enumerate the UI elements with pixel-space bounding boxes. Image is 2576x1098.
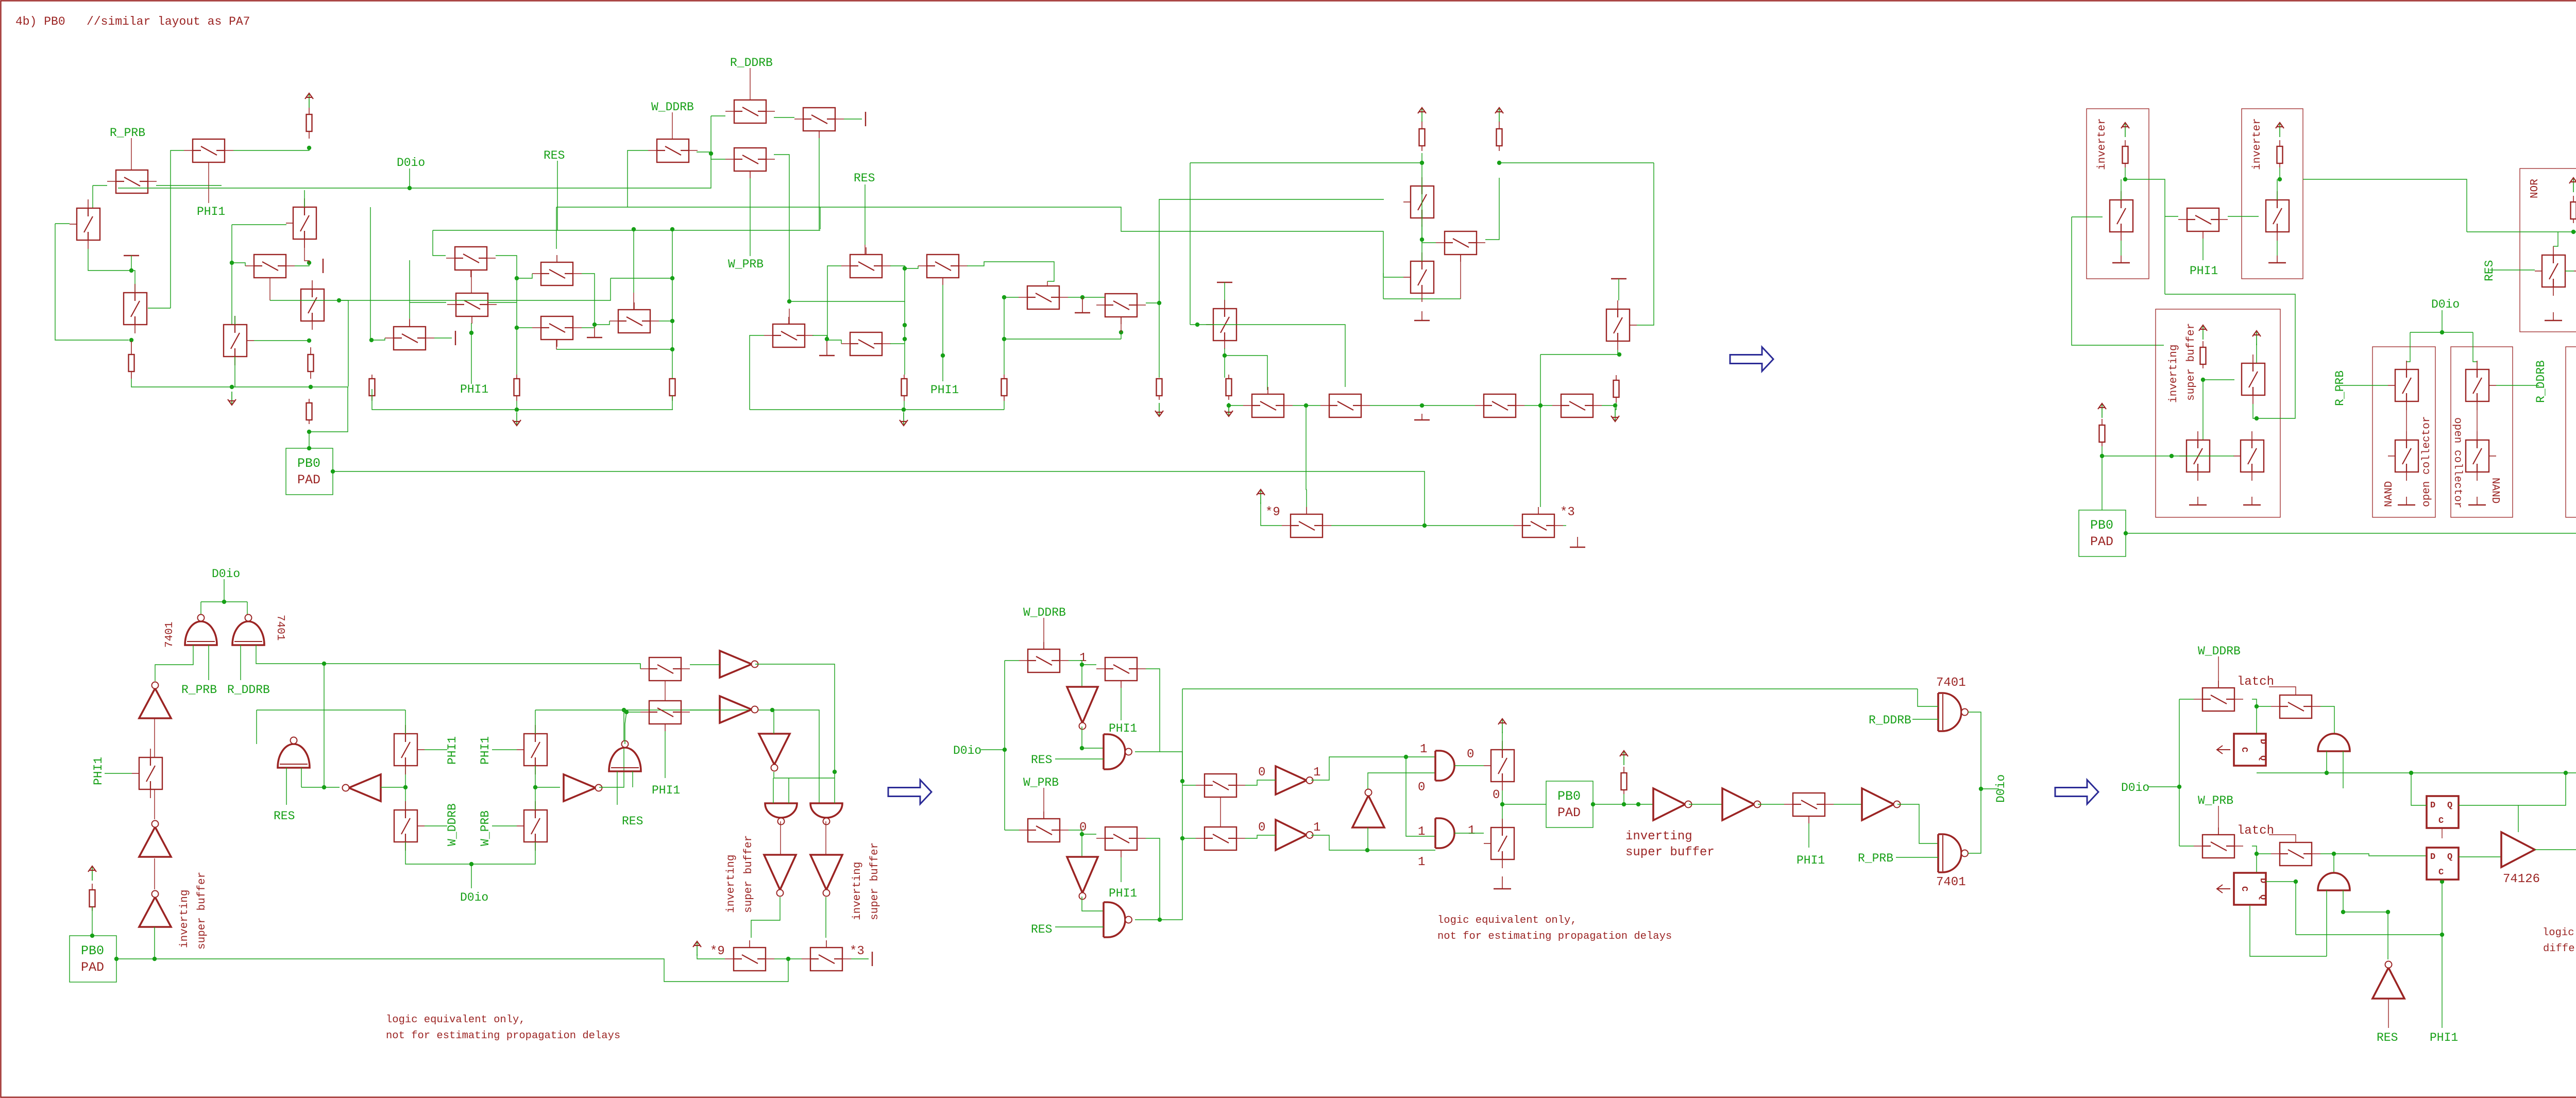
svg-text:74126: 74126 (2503, 872, 2540, 886)
node res2 top (129, 338, 133, 342)
svg-text:R_DDRB: R_DDRB (227, 683, 270, 697)
isbA transistor botR (2233, 431, 2264, 481)
net label PHI1 s4b (1109, 887, 1137, 900)
s4 node n7 (1404, 755, 1408, 759)
wire Q8 gate (254, 340, 309, 341)
s4 text 1f (1418, 825, 1425, 839)
net label D0io s5 (2121, 781, 2149, 795)
power VCC arrow 2 (1418, 108, 1426, 122)
svg-text:different from original circui: different from original circuitry (2543, 943, 2576, 955)
svg-text:latch: latch (2237, 824, 2274, 838)
svg-text:PAD: PAD (1557, 805, 1581, 820)
wire Q25-Q27 (1421, 225, 1422, 261)
transistor Q15 (725, 148, 775, 178)
transistor Q18 (609, 302, 659, 333)
node a2 (307, 261, 311, 265)
wire s3 D0io stub (471, 864, 472, 888)
net label PHI1 s5 (2430, 1031, 2458, 1044)
node c1 (709, 151, 713, 156)
transistor Q5 (286, 198, 316, 248)
wire w1 right (789, 301, 905, 302)
node h3 (1420, 403, 1424, 408)
wire NOR1 ab (2565, 271, 2574, 272)
wire Q7 gate (270, 300, 339, 301)
oc R ground (2468, 497, 2486, 505)
svg-text:1: 1 (1468, 824, 1475, 838)
s4 text 1b (1313, 766, 1320, 780)
inverter tri D2s3 (764, 855, 796, 897)
svg-text:PHI1: PHI1 (2430, 1031, 2458, 1044)
ground bar (124, 255, 139, 256)
wire Q27 gate (1384, 277, 1403, 278)
s4 NAND1 out (1135, 669, 1160, 752)
net label RES s4b (1031, 923, 1052, 936)
isbA resistor (2200, 341, 2206, 368)
s3 note 2 (386, 1030, 620, 1042)
wire e1-e3 vert (1421, 153, 1422, 243)
s4 note 2 (1437, 931, 1672, 942)
s4 gate 7401B (1938, 834, 1968, 872)
isb s3 label 2 (196, 872, 208, 950)
s4 Q7 top (1502, 732, 1503, 750)
s5 A1 legL (2326, 751, 2327, 773)
s5 L2 arrow (2217, 885, 2230, 893)
net label R_DDRB s3 (227, 683, 270, 697)
node h2 (1304, 403, 1308, 408)
s3 fet *3 (802, 940, 851, 971)
s4 transistor Q3 (1019, 812, 1069, 842)
gate NAND E (765, 803, 797, 825)
svg-text:D: D (2430, 852, 2435, 862)
svg-text:latch: latch (2237, 675, 2274, 689)
wire c7 down (516, 328, 517, 375)
isbA ground L (2189, 497, 2207, 505)
svg-text:open collector: open collector (2421, 416, 2433, 507)
wire run B link (820, 207, 821, 229)
s4 inverter D1 (1067, 687, 1098, 730)
inverter tri D3s3 (810, 855, 842, 897)
svg-text:PHI1: PHI1 (1109, 722, 1137, 735)
svg-text:PHI1: PHI1 (479, 736, 492, 765)
transistor Q30 (1320, 394, 1370, 417)
node f1 (1617, 352, 1621, 357)
transistor Q14 (648, 139, 698, 162)
NOR block 1 outline (2520, 168, 2576, 332)
link U3 (154, 858, 155, 889)
wire d2 run (1190, 325, 1345, 387)
svg-text:0: 0 (1467, 748, 1474, 762)
s5 text 74126 (2503, 872, 2540, 886)
wire s3 run1378L drop (256, 710, 257, 744)
wire gE legR (788, 778, 789, 803)
svg-text:7401: 7401 (1936, 875, 1966, 889)
s4 node n1 (1080, 663, 1084, 667)
NOR1 drop L (2553, 232, 2558, 246)
wire Q28 bot (1618, 350, 1619, 354)
node d2 (1195, 323, 1199, 327)
svg-text:D: D (2430, 801, 2435, 810)
node g3 (307, 430, 311, 434)
transistor Q4 (124, 284, 147, 333)
s3 res wire (92, 907, 93, 936)
wire Q2 source left (171, 150, 184, 308)
wire s3 run1378L (257, 710, 405, 711)
open collector R label (2451, 417, 2463, 508)
node c3 (592, 323, 597, 327)
oc R transistor A (2466, 361, 2496, 410)
wire R1s3 out (599, 710, 624, 787)
transistor Q6 (245, 255, 295, 278)
svg-text:RES: RES (1031, 923, 1052, 936)
s4 res wire (1623, 794, 1624, 804)
net label W_PRB s5 (2198, 794, 2233, 807)
s4 NAND3 out (1454, 765, 1484, 766)
svg-text:PHI1: PHI1 (1797, 854, 1825, 867)
open collector L label (2421, 416, 2433, 507)
wire Q23 gate net (1121, 332, 1122, 339)
resistor R2 (129, 341, 134, 379)
wire Q23 right (1146, 302, 1159, 303)
svg-text:PHI1: PHI1 (92, 757, 105, 785)
s4 U1 link (1367, 827, 1368, 850)
node i1 (1422, 523, 1427, 528)
net label R_PRB s4 (1858, 852, 1893, 865)
s4 Q1 left (1005, 660, 1019, 661)
wire c45 (672, 229, 673, 379)
resistor Rf (1002, 375, 1007, 401)
wire c6 down (517, 278, 532, 328)
node e3 (1420, 238, 1424, 242)
s5 L3 C lead (2442, 828, 2443, 838)
isbA node 1 (2201, 378, 2205, 382)
transistor Q2 (184, 139, 233, 162)
inverter block 1 label (2096, 118, 2108, 170)
s4 text 0b (1258, 766, 1265, 780)
inverter tri U2 (139, 821, 171, 857)
svg-text:W_DDRB: W_DDRB (1023, 606, 1066, 619)
wire D3 out (825, 897, 826, 938)
s4 Q9 out (1834, 804, 1862, 805)
isbA label 2 (2185, 323, 2197, 401)
gate NAND D (609, 741, 641, 772)
wire Q13 gate down (819, 138, 820, 230)
wire Q5 gate (232, 224, 286, 225)
wire g3 down (309, 432, 310, 448)
text *9 S1 (1265, 505, 1280, 519)
wire D2 out (751, 897, 780, 938)
svg-text:7401: 7401 (164, 622, 176, 648)
net label D0io s2 (2431, 298, 2460, 311)
NOR1 transistor B (2574, 246, 2576, 296)
net label D0io s4out (1994, 774, 2008, 803)
wire R_DDRB gate (2496, 385, 2539, 386)
isbA VCC arrow 2 (2252, 331, 2261, 345)
wire Q8 top (234, 316, 235, 325)
inverter block 2 label (2251, 118, 2263, 170)
wire e1 rail (1190, 162, 1422, 163)
s5 A2 legL (2326, 890, 2327, 956)
node s3 d0 (222, 600, 226, 604)
s4 note 1 (1437, 915, 1577, 926)
wire s3 Q1 gate (105, 773, 132, 774)
net label PHI1 (197, 205, 225, 218)
node e5 (941, 353, 945, 358)
isbA arrow2 wire (2256, 344, 2257, 363)
wire gC legR (301, 768, 302, 787)
wire gB legR (256, 645, 640, 669)
s4 text 1c (1420, 742, 1427, 756)
s4 node n9 (1500, 802, 1504, 806)
transistor Q34 *3 (1514, 507, 1563, 537)
wire Q1 source (93, 185, 107, 186)
wire s3 Q2 top (405, 710, 406, 734)
wire Q17 right (582, 327, 595, 328)
s5 A2 legR (2343, 890, 2344, 912)
svg-text:RES: RES (854, 172, 875, 185)
wire Q19 gatelead (865, 245, 866, 255)
wire Q14 left (628, 150, 648, 207)
wire L1 in (381, 787, 405, 788)
s4 D0io wire (981, 749, 1005, 750)
node c2b (670, 227, 674, 231)
node e7 (903, 337, 907, 341)
s5 latch1 ptr (2269, 687, 2296, 695)
transistor Q31 (1475, 394, 1524, 417)
svg-text:W_PRB: W_PRB (2198, 794, 2233, 807)
transistor Q8 (224, 316, 254, 365)
svg-text:PHI1: PHI1 (446, 736, 459, 765)
svg-text:D0io: D0io (1994, 774, 2008, 803)
net label R_PRB s2 (2333, 370, 2347, 406)
transistor s3 Q7 (640, 701, 690, 731)
wire QW1 right (812, 335, 827, 339)
title text (15, 15, 250, 28)
node d0 (1119, 330, 1123, 334)
s4 out wire (1981, 788, 1999, 789)
gate 7401 B (232, 615, 264, 646)
s4 Q5-R1 (1245, 780, 1276, 785)
wire Q26 gate run (1383, 298, 1461, 299)
wire g2 (750, 409, 1004, 410)
wire Q28 top (1618, 279, 1619, 300)
wire a3 down (339, 300, 348, 386)
s5 Q4 out b (2334, 854, 2334, 873)
pad PB0 S4 (1546, 781, 1593, 827)
wire *9 vcc (1261, 502, 1282, 526)
wire Q21 gatelead (1047, 281, 1048, 286)
node e2 (1497, 161, 1501, 165)
s4 Q6-R2 (1245, 835, 1276, 838)
oc L ground (2398, 497, 2415, 505)
resistor R6b (1157, 379, 1162, 400)
inverter 2 output node (2278, 177, 2282, 181)
s4 Q1 right (1069, 661, 1082, 665)
wire Q20 right (967, 262, 1054, 281)
ground bar d (1217, 282, 1232, 283)
svg-text:4b) PB0 //similar layout as: 4b) PB0 //similar layout as PA7 (15, 15, 250, 28)
isb s3r label 2 (743, 835, 755, 913)
s5 Q3-Q4 (2252, 846, 2271, 854)
node s3 m4 (533, 785, 537, 789)
terminator t3 (865, 112, 866, 126)
s4 n3 down (1081, 834, 1082, 857)
wire h2 drop (1306, 406, 1307, 489)
svg-text:PB0: PB0 (2090, 518, 2113, 533)
svg-text:super buffer: super buffer (2185, 323, 2197, 401)
s3 resistor (90, 884, 95, 911)
svg-text:PHI1: PHI1 (930, 383, 959, 397)
wire s3 bus drop (324, 664, 325, 787)
transistor Q17 (532, 316, 582, 347)
svg-text:logic equivalent only,: logic equivalent only, (386, 1014, 526, 1026)
wire Q14 right (697, 152, 711, 154)
wire inv1 gate vert (2072, 217, 2164, 345)
wire Q10 gate net (471, 323, 472, 384)
svg-text:PHI1: PHI1 (1109, 887, 1137, 900)
wire Q18 gatefeed (633, 229, 634, 293)
s5 n5 drop (2387, 912, 2388, 959)
inverter block 6 outline (2566, 347, 2576, 517)
net label R_DDRB s4 (1869, 714, 1911, 727)
inverter 1 output node (2123, 177, 2127, 181)
node c7 (515, 326, 519, 330)
text *3 s3 (850, 944, 865, 958)
svg-text:W_PRB: W_PRB (728, 258, 764, 271)
svg-text:D0io: D0io (2431, 298, 2460, 311)
s5 text latch2 (2237, 824, 2274, 838)
wire Q6-R2 (690, 664, 720, 665)
node bus2 (309, 385, 313, 389)
inverter 2 res-out wire (2279, 167, 2280, 179)
net label PHI1 s3c (479, 736, 492, 765)
net label PHI1 b (460, 383, 488, 396)
s4 out node (1979, 787, 1983, 791)
NOR block 1 label (2529, 179, 2541, 198)
net label RES s3b (622, 815, 643, 828)
transistor s3 Q2 (394, 725, 425, 774)
svg-text:logic equivalent only,: logic equivalent only, (1437, 915, 1577, 926)
s2 pad VCC arrow (2098, 403, 2106, 418)
inverter tri R1s3 (564, 774, 602, 801)
s5 Q3 gate lead (2218, 806, 2219, 835)
s4 NAND4 out (1454, 833, 1484, 834)
svg-text:inverting: inverting (2168, 345, 2180, 403)
wire QW2 right (890, 343, 905, 344)
s3 fet *9 (725, 940, 774, 971)
wire s3 drop L (200, 602, 201, 614)
node c6 (515, 276, 519, 280)
node s3 m2 (403, 785, 408, 789)
s4 Q2 gate wire (1121, 688, 1122, 720)
s4 Q6 left (1182, 838, 1196, 839)
s4 D1 out (1081, 727, 1082, 748)
inverter block 2 outline (2242, 109, 2303, 279)
s4 VCC arrow (1498, 719, 1506, 733)
transistor s3 Q1 (132, 749, 162, 798)
net label RES b (854, 172, 875, 185)
s4 Q5 left (1182, 785, 1196, 786)
transistor Q26 (1436, 231, 1485, 262)
wire Q1 source drop (92, 185, 93, 208)
inverter 2 ground (2268, 256, 2286, 263)
node w2 (825, 337, 829, 341)
node d1 (1157, 301, 1161, 305)
node g1 (515, 408, 519, 412)
s4 Q4 gate wire (1121, 857, 1122, 882)
node h4 (1538, 403, 1543, 408)
inverter 2 resistor (2277, 140, 2283, 167)
svg-text:W_DDRB: W_DDRB (2198, 645, 2241, 658)
block arrow 2 (888, 780, 931, 804)
wire s3 Q4 gate (492, 749, 517, 750)
svg-text:RES: RES (274, 809, 295, 823)
wire R2 out (755, 664, 835, 772)
wire Q18 right (659, 320, 672, 322)
node c2 (632, 227, 636, 231)
wire e9 right (1004, 339, 1121, 340)
wire D0io stub (409, 168, 410, 188)
inv2 out link (2303, 179, 2467, 232)
wire D0io split (2410, 332, 2473, 333)
net label RES s3a (274, 809, 295, 823)
transistor Q11 (385, 319, 434, 350)
wire Q15 gate (750, 178, 751, 256)
wire bottom bus left (131, 379, 348, 387)
s4 bus drop (1182, 689, 1183, 781)
net label W_PRB s1 (728, 258, 764, 271)
s5 74126 ctl (2518, 805, 2519, 832)
s5 Q2 out (2320, 706, 2334, 734)
wire pad bus (333, 471, 1082, 472)
ground bar i (819, 341, 835, 356)
node s3 m6 (770, 708, 774, 712)
wire e2 rail (1499, 162, 1654, 163)
wire Q18 gatelead (633, 293, 634, 310)
wire QW1 gatelead (789, 309, 790, 324)
s4 text 1e (1468, 824, 1475, 838)
transistor QW2 (841, 332, 891, 356)
wire Q21 right (1068, 297, 1105, 298)
s4 R4 out (1758, 804, 1784, 805)
s4 text 1a (1079, 651, 1087, 665)
transistor Q27 (1403, 252, 1434, 302)
svg-text:D: D (2258, 739, 2267, 744)
ground arrow 3 (1225, 403, 1233, 416)
s5 latch cell L4 (2427, 848, 2459, 880)
wire Q7-R3 (690, 710, 720, 711)
s5 run 1856 (2250, 906, 2327, 956)
s5 n4 wire (2343, 911, 2388, 913)
inverter 2 fet top (2277, 179, 2278, 200)
transistor Q25 (1403, 177, 1434, 227)
s4 gate NAND1 (1104, 734, 1132, 769)
s4 NAND2 out2 (1160, 781, 1182, 920)
wire vert mid (231, 225, 232, 325)
s4 pad resistor (1621, 767, 1627, 794)
s4 pad VCC (1620, 751, 1628, 765)
svg-text:1: 1 (1418, 855, 1425, 869)
s4 node n6 (1180, 836, 1184, 840)
s4 text 0f (1418, 781, 1425, 795)
text 7401 a (164, 622, 176, 648)
node a3 (337, 298, 341, 302)
isbA link (2253, 404, 2257, 418)
net label W_PRB s4 (1023, 776, 1059, 789)
wire d3 right (1225, 356, 1267, 390)
isbA left chain (2202, 380, 2204, 440)
wire Q19 left (827, 266, 841, 339)
s4 vert left (1004, 661, 1005, 830)
